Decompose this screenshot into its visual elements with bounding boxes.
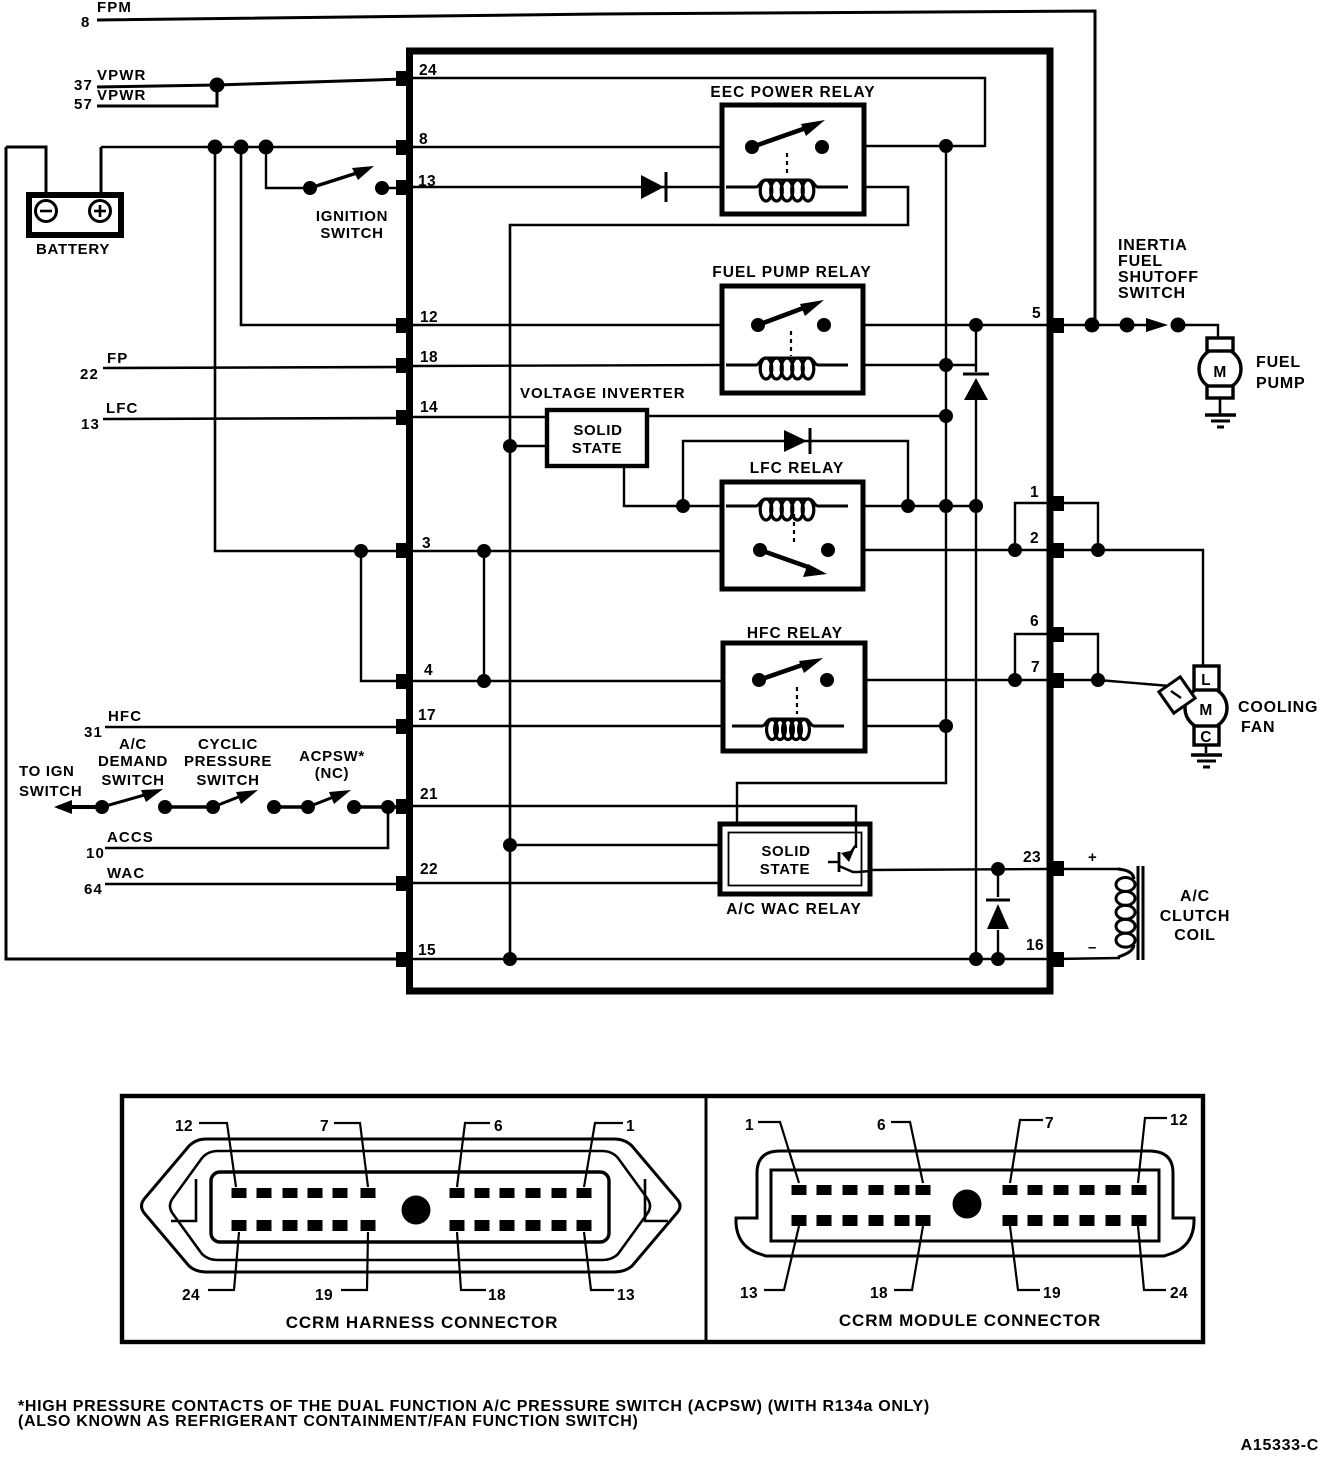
svg-text:23: 23 (1023, 849, 1041, 866)
svg-text:22: 22 (420, 861, 438, 878)
svg-text:13: 13 (617, 1287, 635, 1304)
svg-text:COOLING: COOLING (1238, 699, 1318, 716)
svg-text:5: 5 (1032, 305, 1041, 322)
svg-text:3: 3 (422, 535, 431, 552)
harness insert body (211, 1172, 609, 1242)
svg-text:VOLTAGE INVERTER: VOLTAGE INVERTER (520, 385, 686, 402)
svg-text:LFC RELAY: LFC RELAY (750, 460, 845, 477)
wire pin18 to FP coil (413, 365, 722, 366)
junction LFC coil A (901, 499, 915, 513)
harness pins bottom row (232, 1220, 592, 1231)
svg-text:15: 15 (418, 942, 436, 959)
module shell outer (736, 1151, 1194, 1256)
svg-text:12: 12 (1170, 1112, 1188, 1129)
A/C clutch coil L1 (1088, 849, 1143, 960)
cooling fan motor M2 (1159, 666, 1227, 767)
svg-text:13: 13 (740, 1285, 758, 1302)
junction LFC coil C (969, 499, 983, 513)
ground cooling fan (1191, 753, 1222, 756)
svg-text:1: 1 (1030, 484, 1039, 501)
junction battery bus C (259, 140, 274, 155)
wire pin 1 bridge left (1015, 503, 1050, 550)
svg-text:10: 10 (86, 845, 105, 862)
svg-text:8: 8 (419, 131, 428, 148)
wire pin15 to pin16 ground row (413, 958, 1047, 960)
pin 13 (396, 180, 412, 195)
svg-text:DEMAND: DEMAND (98, 753, 168, 770)
wire jumper line3 to line4 inside (483, 551, 485, 681)
switch chain arm 1 A/C demand (102, 789, 163, 807)
diode CR4 clutch (986, 900, 1010, 929)
module pins top row (792, 1185, 1147, 1195)
svg-text:1: 1 (626, 1118, 635, 1135)
wire battery bus to pin 8 / EEC switch (101, 146, 722, 149)
pin 8 (396, 140, 412, 155)
harness pin callouts (199, 1123, 623, 1290)
wire inverter upper feed from EEC net (510, 445, 547, 447)
pin 17 (396, 719, 412, 734)
wire WAC output to pin 23 (868, 869, 1047, 870)
svg-text:6: 6 (1030, 613, 1039, 630)
svg-text:12: 12 (420, 309, 438, 326)
svg-text:FUEL PUMP RELAY: FUEL PUMP RELAY (712, 264, 871, 281)
wire pin14 to voltage inverter (413, 416, 547, 418)
svg-text:6: 6 (494, 1118, 503, 1135)
junction EEC net ground end (503, 952, 517, 966)
junction pin6 bridge left (1008, 673, 1022, 687)
svg-text:SWITCH: SWITCH (101, 772, 164, 789)
wire pin12 branch (241, 147, 722, 325)
junction pin1 bridge left (1008, 543, 1022, 557)
fan inline connector (1159, 677, 1195, 713)
module index circle (953, 1190, 982, 1219)
wire ignition branch (266, 147, 310, 188)
pin 12 (396, 318, 412, 333)
battery B1 (29, 195, 121, 258)
wire EEC coil wrap-around (510, 187, 908, 959)
junction pin6 bridge right (1091, 673, 1105, 687)
junction FP coil right (939, 358, 953, 372)
pin 22 (396, 876, 412, 891)
CCRM module box (410, 51, 1051, 991)
svg-text:64: 64 (84, 881, 103, 898)
switch chain arm 2 cyclic pressure (213, 790, 258, 807)
junction ignition right contact (375, 181, 389, 195)
svg-text:HFC RELAY: HFC RELAY (747, 625, 843, 642)
harness shell step detail (171, 1179, 196, 1221)
text labels wires (19, 0, 1318, 944)
svg-text:SWITCH: SWITCH (196, 772, 259, 789)
A/C WAC relay U2 (720, 824, 870, 918)
wire pin 2 to cooling fan high (1053, 550, 1203, 665)
wire pin24 to EEC relay elbow (413, 78, 985, 147)
wire clutch diode vertical upper (997, 869, 999, 897)
svg-text:STATE: STATE (572, 440, 622, 457)
wire pin4 to HFC switch (413, 680, 723, 682)
svg-text:M: M (1213, 364, 1226, 381)
svg-text:12: 12 (175, 1118, 193, 1135)
svg-text:+: + (1088, 849, 1097, 866)
svg-text:C: C (1200, 729, 1212, 746)
svg-text:FAN: FAN (1241, 719, 1275, 736)
wire EEC net to WAC upper input (510, 844, 720, 846)
wire pin5 to inertia switch (1053, 324, 1127, 326)
to ign switch start arrow (54, 800, 72, 814)
svg-text:PUMP: PUMP (1256, 375, 1305, 392)
wire ignition to pin 13 (382, 187, 410, 189)
module pin callouts (758, 1118, 1167, 1290)
svg-text:(NC): (NC) (315, 765, 349, 782)
pin 7 (1048, 673, 1064, 688)
pin 3 (396, 543, 412, 558)
svg-text:CCRM MODULE CONNECTOR: CCRM MODULE CONNECTOR (839, 1311, 1101, 1330)
svg-text:IGNITION: IGNITION (316, 208, 388, 225)
svg-text:18: 18 (420, 349, 438, 366)
wire pin21 to WAC solid state (413, 806, 856, 848)
wire HFC coil right to WAC feed (864, 725, 946, 727)
svg-text:A/C WAC RELAY: A/C WAC RELAY (726, 901, 862, 918)
svg-text:EEC POWER RELAY: EEC POWER RELAY (710, 84, 875, 101)
wire clutch diode vertical lower (997, 930, 999, 959)
harness pin numbers (175, 1118, 635, 1304)
svg-text:INERTIA: INERTIA (1118, 237, 1188, 254)
junction inertia switch right (1171, 318, 1186, 333)
junction ignition left contact (303, 181, 317, 195)
pin 14 (396, 410, 412, 425)
wire pin17 to HFC coil (413, 725, 723, 727)
wire VPWR distribution vertical x946 (737, 146, 946, 826)
wire pin23 to clutch coil (1053, 868, 1120, 870)
svg-text:STATE: STATE (760, 861, 810, 878)
pin 2 (1048, 543, 1064, 558)
svg-text:ACCS: ACCS (107, 829, 154, 846)
wire ground-return far-left vertical (6, 147, 403, 959)
harness pins top row (232, 1188, 592, 1198)
svg-text:18: 18 (488, 1287, 506, 1304)
ground fuel pump (1205, 413, 1236, 416)
junction chain dots (95, 800, 109, 814)
wire HFC pin17 (105, 726, 403, 729)
svg-text:6: 6 (877, 1117, 886, 1134)
svg-text:37: 37 (74, 77, 93, 94)
svg-text:7: 7 (1045, 1115, 1054, 1132)
junction line3-line4 bottom (477, 674, 491, 688)
wire pin13 diode to EEC coil (413, 186, 722, 189)
switch chain arm 3 ACPSW (308, 790, 351, 807)
junction line3-line4 top (477, 544, 491, 558)
wire battery plus vertical (100, 147, 103, 193)
svg-text:18: 18 (870, 1285, 888, 1302)
wire inertia sw to fuel pump (1178, 325, 1218, 339)
CCRM harness connector drawing (142, 1139, 681, 1272)
wire EEC switch out to pin24 elbow (864, 145, 985, 147)
harness shell outer (142, 1139, 681, 1272)
wire pin 6 bridge left (1015, 634, 1050, 680)
wire pin5 diode net vertical x976 upper (975, 325, 977, 372)
svg-text:L: L (1201, 672, 1211, 689)
svg-text:COIL: COIL (1174, 927, 1215, 944)
transistor Q1 (851, 845, 856, 852)
LFC relay K3 (722, 460, 863, 589)
svg-text:SHUTOFF: SHUTOFF (1118, 269, 1199, 286)
svg-text:8: 8 (81, 14, 90, 31)
wire FP coil right to diode net (862, 364, 976, 366)
svg-text:19: 19 (1043, 1285, 1061, 1302)
svg-text:16: 16 (1026, 937, 1044, 954)
wire pin22 to WAC solid state (413, 882, 720, 884)
wire inverter output right (647, 415, 946, 417)
svg-text:A15333-C: A15333-C (1241, 1437, 1319, 1454)
wire ACCS (105, 807, 388, 848)
wire inertia switch blade (1127, 324, 1150, 326)
junction inverter out (939, 409, 953, 423)
wire pin 7 to cooling fan (1053, 680, 1170, 686)
module pins bottom row (792, 1215, 1147, 1226)
junction battery bus B (234, 140, 249, 155)
pin 1 (1048, 496, 1064, 511)
module insert body (771, 1170, 1159, 1241)
junction inertia switch left (1120, 318, 1135, 333)
harness shell inner (170, 1151, 650, 1260)
svg-text:FUEL: FUEL (1118, 253, 1163, 270)
wire switch chain to pin 21 (58, 805, 102, 809)
CCRM module connector drawing (736, 1151, 1194, 1256)
diode CR3 pin5 net (963, 374, 989, 400)
module pins (396, 62, 1064, 967)
wire pin3 row (215, 147, 722, 551)
wire pin 6 bridge right (1053, 634, 1098, 680)
svg-text:M: M (1199, 702, 1212, 719)
wire FP switch out to pin 5 (862, 324, 1047, 326)
wire HFC switch out to pin 7 (864, 679, 1047, 681)
svg-text:PRESSURE: PRESSURE (184, 753, 272, 770)
HFC relay K4 (723, 625, 865, 751)
svg-text:21: 21 (420, 786, 438, 803)
pin 23 (1048, 861, 1064, 876)
wire WAC pin22 (105, 883, 403, 886)
harness index circle (402, 1196, 431, 1225)
diode CR1 pin13 (641, 172, 666, 202)
svg-text:24: 24 (1170, 1285, 1188, 1302)
junction clutch diode top (991, 862, 1005, 876)
wire inverter output bottom to LFC coil (624, 466, 722, 506)
junction clutch diode bottom (991, 952, 1005, 966)
svg-text:A/C: A/C (119, 736, 147, 753)
wire chain segment 1 (165, 805, 213, 808)
junction EEC switch out (939, 139, 953, 153)
inertia fuel shutoff switch arrow (1146, 318, 1168, 332)
svg-text:WAC: WAC (107, 865, 145, 882)
svg-text:31: 31 (84, 724, 103, 741)
svg-text:HFC: HFC (108, 708, 142, 725)
wire diode net vertical x976 lower (975, 400, 977, 959)
svg-text:(ALSO KNOWN AS REFRIGERANT CON: (ALSO KNOWN AS REFRIGERANT CONTAINMENT/F… (18, 1413, 639, 1430)
svg-text:19: 19 (315, 1287, 333, 1304)
pin 4 (396, 674, 412, 689)
svg-text:13: 13 (81, 416, 100, 433)
svg-text:BATTERY: BATTERY (36, 241, 110, 258)
svg-text:1: 1 (745, 1117, 754, 1134)
svg-text:24: 24 (182, 1287, 200, 1304)
svg-text:57: 57 (74, 96, 93, 113)
svg-text:14: 14 (420, 399, 438, 416)
junction FPM pin5 (1085, 318, 1100, 333)
junction HFC coil right (939, 719, 953, 733)
pin 5 (1048, 318, 1064, 333)
wire LFC pin14 (103, 418, 403, 419)
svg-text:FUEL: FUEL (1256, 354, 1301, 371)
wire LFC diode branch (683, 441, 908, 506)
junction VPWR splice (210, 78, 225, 93)
svg-text:VPWR: VPWR (97, 67, 146, 84)
svg-text:SWITCH: SWITCH (320, 225, 383, 242)
svg-text:FP: FP (107, 350, 128, 367)
wire chain segment 3 (354, 805, 410, 808)
svg-text:17: 17 (418, 707, 436, 724)
svg-text:22: 22 (80, 366, 99, 383)
wire LFC coil right (862, 505, 976, 507)
fuel pump motor M1 (1199, 338, 1241, 427)
EEC power relay K1 (710, 84, 875, 214)
connector panel box (122, 1096, 1203, 1342)
junction pin3 jumper (354, 544, 368, 558)
svg-text:7: 7 (1031, 659, 1040, 676)
junction LFC coil B (939, 499, 953, 513)
pin 15 (396, 952, 412, 967)
wire battery minus top (6, 147, 46, 193)
ignition switch S1 (310, 166, 388, 242)
junction EEC net WAC tap (503, 838, 517, 852)
wire jumper pin3 to pin4 outside (361, 551, 403, 681)
svg-text:SOLID: SOLID (573, 422, 622, 439)
pin 6 (1048, 627, 1064, 642)
svg-text:LFC: LFC (106, 400, 138, 417)
wire pin 1 bridge right (1053, 503, 1098, 550)
svg-text:SOLID: SOLID (761, 843, 810, 860)
wire FPM pin8 top (97, 11, 1095, 325)
module pin numbers (740, 1112, 1188, 1302)
junction pin1 bridge right (1091, 543, 1105, 557)
svg-text:4: 4 (424, 662, 433, 679)
pin 16 (1048, 952, 1064, 967)
pin 24 (396, 71, 412, 86)
svg-text:CYCLIC: CYCLIC (198, 736, 258, 753)
diode CR2 LFC branch (784, 428, 810, 454)
wire LFC switch out to pin 2 (862, 549, 1047, 551)
wire VPWR 37 to pin 24 (97, 79, 404, 87)
voltage inverter U1 (520, 385, 686, 466)
wire FP pin18 (103, 367, 403, 368)
junction diode net pin5 (969, 318, 983, 332)
junction EEC net inverter tap (503, 439, 517, 453)
junction inverter LFC feed (676, 499, 690, 513)
svg-text:ACPSW*: ACPSW* (299, 748, 365, 765)
svg-text:CCRM HARNESS CONNECTOR: CCRM HARNESS CONNECTOR (286, 1313, 559, 1332)
junction diode net ground end (969, 952, 983, 966)
connector panel divider (705, 1098, 708, 1340)
wire VPWR 57 (97, 85, 217, 106)
wire chain segment 2 (274, 805, 308, 808)
svg-text:13: 13 (418, 173, 436, 190)
pin 18 (396, 358, 412, 373)
wire pin16 to clutch coil (1053, 958, 1120, 959)
svg-text:2: 2 (1030, 530, 1039, 547)
svg-text:24: 24 (419, 62, 437, 79)
svg-text:SWITCH: SWITCH (1118, 285, 1186, 302)
svg-text:TO IGN: TO IGN (19, 763, 75, 780)
fuel pump relay K2 (712, 264, 871, 393)
svg-text:FPM: FPM (97, 0, 132, 16)
pin 21 (396, 799, 412, 814)
svg-text:VPWR: VPWR (97, 87, 146, 104)
svg-text:7: 7 (320, 1118, 329, 1135)
svg-text:SWITCH: SWITCH (19, 783, 82, 800)
svg-text:CLUTCH: CLUTCH (1160, 908, 1231, 925)
svg-text:–: – (1088, 939, 1097, 956)
junction battery bus A (208, 140, 223, 155)
svg-text:A/C: A/C (1180, 888, 1210, 905)
